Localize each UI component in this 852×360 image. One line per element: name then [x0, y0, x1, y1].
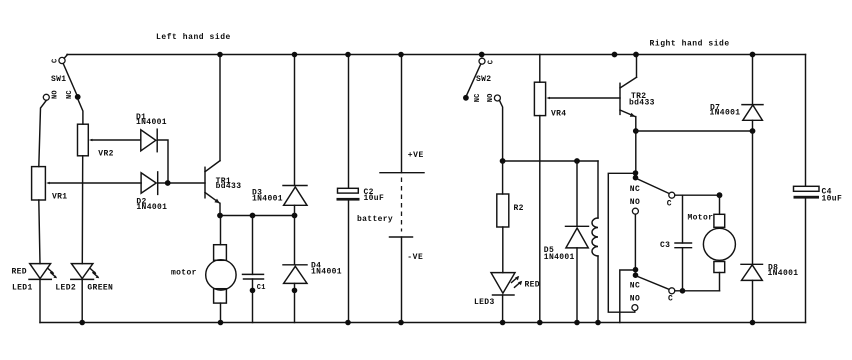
transistor TR1 — [205, 161, 220, 204]
junction battery at ground rail — [398, 320, 404, 326]
svg-text:LED1: LED1 — [12, 283, 33, 292]
svg-text:C: C — [52, 59, 60, 63]
potentiometer VR4 — [534, 55, 550, 323]
svg-text:VR1: VR1 — [52, 192, 67, 201]
svg-text:bd433: bd433 — [629, 98, 655, 107]
wire TR2 emitter down to relay contact — [635, 117, 637, 172]
junction D7 cathode node — [750, 128, 756, 134]
relay coil RL1 — [592, 161, 598, 323]
junction C1 lead — [250, 288, 256, 294]
svg-text:bd433: bd433 — [216, 182, 242, 191]
svg-text:RED: RED — [525, 280, 540, 289]
junction TR1 collector at top rail — [217, 52, 223, 58]
svg-text:C: C — [487, 60, 495, 64]
svg-text:1N4001: 1N4001 — [136, 203, 167, 212]
switch SW1 NO contact — [43, 94, 49, 100]
junction D4 lead — [292, 288, 298, 294]
svg-text:1N4001: 1N4001 — [252, 195, 283, 204]
wire D1 cathode to node A — [157, 140, 168, 183]
junction emitter node at motor — [217, 213, 223, 219]
junction motor M2 top — [717, 192, 723, 198]
potentiometer VR2 — [78, 124, 89, 156]
svg-text:C3: C3 — [660, 241, 670, 250]
wire TR1 collector to top rail — [219, 55, 221, 161]
svg-text:motor: motor — [171, 269, 197, 278]
svg-text:R2: R2 — [514, 204, 524, 213]
wire VR1 wiper to D2 anode — [50, 182, 142, 184]
svg-text:NC: NC — [630, 185, 640, 194]
motor M2 right — [703, 195, 735, 291]
switch SW2 common terminal C — [479, 58, 485, 64]
diode D3 — [283, 55, 307, 216]
motor M1 left — [206, 216, 236, 323]
capacitor C4 — [794, 186, 820, 198]
junction coil at ground rail — [595, 320, 601, 326]
junction LED3 at ground rail — [500, 320, 506, 326]
LED LED1 — [30, 264, 51, 279]
LED LED3 — [491, 273, 522, 323]
wire link RLA NC to RLB NO — [608, 173, 635, 312]
junction D8 at ground rail — [750, 320, 756, 326]
wire SW2 NO down to node B — [499, 100, 502, 161]
wire node A to TR1 base — [158, 182, 205, 184]
potentiometer VR1 — [32, 167, 46, 200]
switch SW2 junction at top rail — [479, 52, 485, 58]
relay contact RLA NC terminal — [633, 170, 639, 176]
svg-text:GREEN: GREEN — [87, 283, 113, 292]
junction node B at R2 — [500, 158, 506, 164]
junction D7 at top rail — [750, 52, 756, 58]
switch SW1 NC contact — [75, 94, 81, 100]
switch SW2 NC contact — [463, 95, 469, 101]
wire emitter node to D7 — [636, 130, 753, 132]
relay contact RLB NC terminal — [633, 267, 639, 273]
wire TR2 collector to top rail — [636, 55, 638, 78]
wire bottom ground rail — [40, 322, 806, 324]
svg-text:Motor: Motor — [688, 214, 714, 223]
svg-text:SW2: SW2 — [476, 75, 491, 84]
svg-text:NO: NO — [487, 93, 495, 102]
svg-text:1N4001: 1N4001 — [311, 268, 342, 277]
junction VR4 at ground rail — [537, 320, 543, 326]
svg-text:-VE: -VE — [407, 253, 423, 262]
wire LED1 cathode to ground rail — [39, 279, 41, 322]
svg-text:battery: battery — [357, 215, 393, 224]
wire VR1 bottom to LED1 — [39, 200, 40, 264]
junction D5 at ground rail — [574, 320, 580, 326]
svg-text:NC: NC — [474, 93, 482, 102]
svg-text:SW1: SW1 — [51, 75, 66, 84]
switch SW1 lever — [63, 64, 77, 96]
junction LED2 at ground rail — [79, 320, 85, 326]
svg-text:C1: C1 — [257, 284, 266, 292]
wire LED2 cathode to ground rail — [81, 279, 83, 322]
wire SW1 C to top rail — [64, 55, 67, 59]
wire SW1 NO to VR1 top — [39, 100, 47, 166]
junction D3 at top rail — [292, 52, 298, 58]
diode D7 — [742, 55, 763, 132]
relay contact RLB NO terminal — [632, 305, 638, 311]
svg-text:10uF: 10uF — [364, 194, 385, 203]
svg-text:1N4001: 1N4001 — [710, 109, 741, 118]
capacitor C3 — [675, 195, 692, 291]
resistor R2 — [497, 161, 509, 273]
wire VR2 bottom to LED2 — [81, 156, 83, 264]
diode D5 — [566, 161, 589, 323]
svg-text:LED2: LED2 — [55, 283, 76, 292]
svg-text:NO: NO — [52, 90, 60, 99]
junction C3 at RLB C wire — [680, 288, 686, 294]
junction C2 at top rail — [345, 52, 351, 58]
wire right edge lower (C4 to bottom rail) — [805, 199, 807, 323]
LED LED2 — [71, 264, 93, 279]
wire RLA C to motor M2 top — [675, 194, 720, 196]
junction emitter node at C1 — [250, 213, 256, 219]
diode D8 — [741, 131, 763, 323]
junction TR2 collector at top rail — [633, 52, 639, 58]
wire RLB C to motor M2 bottom — [675, 290, 720, 292]
svg-text:NO: NO — [630, 198, 640, 207]
relay contact RLB lever — [637, 276, 670, 290]
transistor TR2 — [620, 77, 637, 116]
battery B1 — [380, 55, 424, 323]
junction battery at top rail — [398, 52, 404, 58]
relay contact RLA common C — [669, 192, 675, 198]
svg-text:NC: NC — [66, 90, 74, 99]
svg-text:C: C — [667, 199, 672, 208]
svg-text:NO: NO — [630, 295, 640, 304]
svg-text:1N4001: 1N4001 — [136, 118, 167, 127]
wire TR1 emitter down — [219, 203, 221, 215]
capacitor C1 — [243, 216, 264, 323]
svg-text:1N4001: 1N4001 — [768, 269, 799, 278]
wire node B to relay coil — [503, 160, 598, 162]
svg-text:Right hand side: Right hand side — [650, 40, 730, 49]
svg-text:NC: NC — [630, 282, 640, 291]
wire SW1 NC to VR2 top — [78, 100, 83, 125]
wire RLA NO to RLB NC — [634, 214, 636, 267]
svg-text:LED3: LED3 — [474, 298, 495, 307]
svg-text:+VE: +VE — [408, 151, 424, 160]
junction TR2 emitter node — [633, 128, 639, 134]
svg-text:VR4: VR4 — [551, 109, 566, 118]
junction node B at D5 — [574, 158, 580, 164]
relay contact RLA lever — [637, 179, 670, 194]
svg-text:10uF: 10uF — [822, 195, 843, 204]
svg-text:VR2: VR2 — [98, 149, 113, 158]
switch SW1 common terminal C — [59, 57, 65, 63]
wire emitter node to D3 — [220, 215, 295, 217]
switch SW2 NO contact — [494, 95, 500, 101]
diode D2 — [141, 173, 156, 193]
relay contact RLB common C — [669, 288, 675, 294]
junction emitter node at D3 — [292, 213, 298, 219]
junction C2 at ground rail — [345, 320, 351, 326]
svg-text:RED: RED — [12, 267, 27, 276]
wire VR4 wiper to TR2 base — [550, 97, 621, 99]
relay contact RLA NO terminal — [632, 208, 638, 214]
svg-text:Left hand side: Left hand side — [156, 33, 231, 42]
wire top supply rail — [67, 54, 806, 56]
diode D4 — [283, 216, 307, 323]
junction spare at top rail — [612, 52, 618, 58]
junction node A — [165, 180, 171, 186]
capacitor C2 — [337, 55, 360, 323]
wire right edge upper (rail to C4) — [805, 55, 807, 187]
junction motor M1 at ground rail — [218, 320, 224, 326]
svg-text:1N4001: 1N4001 — [544, 253, 575, 262]
svg-text:C: C — [668, 294, 673, 303]
switch SW2 lever — [467, 64, 481, 96]
wire RLB NC to ground rail — [620, 270, 633, 323]
diode D1 — [141, 130, 156, 151]
